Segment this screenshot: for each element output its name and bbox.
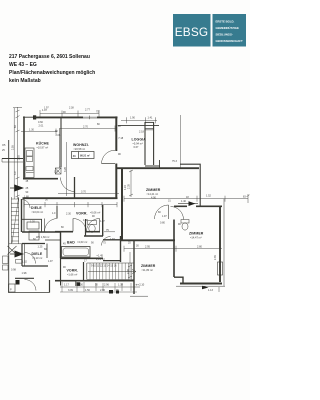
svg-text:1.41: 1.41 <box>148 117 153 120</box>
wall diele/vorr divider <box>56 206 58 218</box>
svg-text:1.40: 1.40 <box>181 200 186 203</box>
upper small rooms under diele <box>41 219 43 232</box>
svg-text:0.98: 0.98 <box>11 269 16 272</box>
stair landing edge <box>9 243 22 245</box>
far-left small boxes <box>3 256 9 264</box>
bottom left black marks <box>16 280 20 285</box>
stairwell left wall <box>8 140 10 293</box>
svg-text:6.67: 6.67 <box>134 146 139 149</box>
svg-text:≈14,41 m²: ≈14,41 m² <box>147 192 159 196</box>
x cross door mark <box>8 246 17 255</box>
svg-text:1.97: 1.97 <box>100 220 105 223</box>
svg-text:WC 1,60 m²: WC 1,60 m² <box>36 236 50 239</box>
zimmer1 door arc <box>155 205 169 219</box>
dimension line wohnzimmer 2.70 <box>60 126 117 132</box>
wall ar right <box>120 236 122 262</box>
svg-text:2.06: 2.06 <box>127 269 130 274</box>
svg-text:DIELE: DIELE <box>31 206 42 210</box>
wc door arc <box>87 219 100 232</box>
dimension line across right wing <box>124 194 250 203</box>
svg-text:1.30: 1.30 <box>29 129 34 132</box>
diele left wall lower <box>23 199 25 232</box>
svg-text:kein Maßstab: kein Maßstab <box>9 78 41 84</box>
bath door arc <box>73 219 86 232</box>
svg-text:2.95: 2.95 <box>145 245 150 248</box>
wall kitchen/wohnzimmer divider <box>60 118 62 167</box>
svg-text:≈10,04 m²: ≈10,04 m² <box>32 210 44 214</box>
wall wohnzimmer right (to loggia) <box>115 116 117 151</box>
svg-text:98,51 m²: 98,51 m² <box>80 154 90 158</box>
outer thin line right <box>223 199 225 287</box>
wall between zimmer1 and zimmer2 <box>121 239 175 241</box>
svg-text:WE 43 – EG: WE 43 – EG <box>9 62 37 68</box>
extension ticks bottom band <box>60 282 137 292</box>
svg-text:≈5,94 m²: ≈5,94 m² <box>133 141 143 145</box>
svg-text:ZIMMER: ZIMMER <box>141 264 156 268</box>
bottom left walls <box>49 280 51 293</box>
loggia column tie <box>145 128 154 130</box>
svg-text:2,23 m²: 2,23 m² <box>96 257 105 261</box>
walls around lower diele <box>21 244 23 267</box>
stair flight rails <box>10 197 12 244</box>
black arrow right wing <box>189 201 196 206</box>
loggia column top tie <box>145 121 155 123</box>
svg-text:≈5,06 m²: ≈5,06 m² <box>90 211 100 215</box>
staircase lower treads <box>86 263 88 280</box>
loggia bottom ledge <box>145 165 160 167</box>
svg-text:1.52: 1.52 <box>206 195 211 198</box>
svg-text:DIELE: DIELE <box>32 252 43 256</box>
svg-text:≈4,63 m²: ≈4,63 m² <box>77 240 87 244</box>
svg-text:≈10,97 m²: ≈10,97 m² <box>37 146 49 150</box>
bottom wall right room step <box>174 277 183 283</box>
svg-text:1.97: 1.97 <box>54 171 59 174</box>
dimension line left vertical <box>13 107 22 199</box>
svg-text:7.18: 7.18 <box>118 137 123 140</box>
right room door arc <box>171 207 184 220</box>
right room toilet <box>181 220 189 224</box>
loggia column left line <box>144 122 146 165</box>
svg-text:≈1,66 m²: ≈1,66 m² <box>67 273 77 277</box>
wall zimmer1 top <box>116 167 199 169</box>
svg-text:ZIMMER: ZIMMER <box>146 188 161 192</box>
svg-text:2.05: 2.05 <box>56 134 61 137</box>
entrance door arc <box>22 200 31 209</box>
stair treads <box>11 199 18 241</box>
svg-text:1.02: 1.02 <box>22 261 27 264</box>
kitchen sink bowl 1 <box>27 151 33 157</box>
svg-text:1.17: 1.17 <box>64 284 69 287</box>
svg-text:2.55: 2.55 <box>12 145 15 150</box>
svg-text:2.96: 2.96 <box>104 284 109 287</box>
svg-text:2.35: 2.35 <box>128 184 131 189</box>
black marks bottom stair <box>109 290 113 294</box>
right room top wall <box>174 205 187 207</box>
wall segment above bottom-left door <box>15 277 34 279</box>
stairwell right wall <box>21 199 23 232</box>
svg-text:VORR.: VORR. <box>76 212 88 216</box>
loggia door leaf + arc <box>102 163 116 165</box>
svg-text:GEMEINNÜTZIGE: GEMEINNÜTZIGE <box>216 25 239 30</box>
line under arrow <box>178 203 198 205</box>
svg-text:1.97: 1.97 <box>42 109 47 112</box>
terrace step top right <box>180 164 200 198</box>
window marks top wall <box>83 116 97 118</box>
kitchen counter outline <box>25 148 34 178</box>
diele door arc <box>45 219 58 232</box>
EBSG logo left square <box>173 14 211 47</box>
dimension line zimmer1 vertical <box>129 170 133 197</box>
dimension line 3.70 inside wohnzimmer <box>58 192 119 194</box>
svg-text:GENOSSENSCHAFT: GENOSSENSCHAFT <box>216 39 243 43</box>
svg-text:2.96: 2.96 <box>100 289 105 292</box>
entrance arrow apartment bottom <box>15 251 25 258</box>
right room left wall <box>173 220 175 278</box>
top wall step left corner <box>23 116 34 118</box>
bottom dimension 1.13 <box>218 287 220 292</box>
entrance arrow apartment top <box>15 185 25 192</box>
bottom-left inner walls <box>60 281 62 286</box>
svg-text:0.80: 0.80 <box>160 222 165 225</box>
svg-text:2.70: 2.70 <box>83 126 88 129</box>
svg-text:1.55: 1.55 <box>18 155 21 160</box>
wc left wall <box>85 219 87 236</box>
svg-text:WOHNZI.: WOHNZI. <box>73 143 89 147</box>
svg-text:Plan/Flächenabweichungen mögli: Plan/Flächenabweichungen möglich <box>9 70 95 76</box>
svg-text:9 10 11 12 13 14 15 16: 9 10 11 12 13 14 15 16 <box>91 265 117 268</box>
dimension line mid right 2.95/2.80 <box>124 246 222 252</box>
kitchen sink bowl 2 <box>27 157 33 162</box>
vertical dim line wohnzi <box>66 142 68 196</box>
loggia column right line <box>153 122 155 165</box>
svg-text:1.88: 1.88 <box>24 196 29 199</box>
svg-text:2.30: 2.30 <box>66 213 71 216</box>
svg-text:BAD: BAD <box>67 241 75 245</box>
small box left wall <box>16 260 23 264</box>
bottom band wall <box>55 280 134 282</box>
svg-text:75.3: 75.3 <box>172 160 177 163</box>
svg-text:3.70: 3.70 <box>81 191 86 194</box>
apartment badge 43 / 98,51 m² <box>72 152 95 159</box>
wall kitchen bottom <box>23 178 58 180</box>
wall left kitchen exterior <box>23 116 25 178</box>
svg-text:1.25: 1.25 <box>38 246 43 249</box>
wall ar bottom <box>84 235 103 237</box>
walls vorr2 <box>60 258 62 281</box>
black arrow bottom right <box>202 286 209 289</box>
dimension line loggia top 1.90 / 1.41 <box>121 117 157 123</box>
loggia top wall <box>118 124 159 126</box>
svg-text:3.09: 3.09 <box>68 289 73 292</box>
svg-text:1.90: 1.90 <box>130 117 135 120</box>
svg-text:2.35: 2.35 <box>214 255 217 260</box>
dishwasher box with cross <box>55 168 61 174</box>
dimension line top (kitchen) <box>40 110 99 117</box>
wall zimmer1 left <box>121 168 123 240</box>
svg-text:1.97: 1.97 <box>44 106 49 109</box>
svg-text:⊕+2,10: ⊕+2,10 <box>136 283 145 287</box>
svg-text:1.13: 1.13 <box>208 289 213 292</box>
extension line to right <box>180 115 182 168</box>
svg-text:≈11,80 m²: ≈11,80 m² <box>142 268 154 272</box>
lower diele door arc <box>25 253 36 264</box>
bottom left door arc <box>25 280 37 291</box>
wall wohnzimmer bottom / corridor top <box>23 197 118 199</box>
bottom band baseline <box>60 286 140 288</box>
svg-text:2.80: 2.80 <box>197 245 202 248</box>
assorted small dimension labels <box>12 106 247 269</box>
bottom band dimension texts <box>64 284 123 293</box>
svg-text:KÜCHE: KÜCHE <box>36 142 50 146</box>
wall ar bottom lower <box>103 260 121 262</box>
bathtub <box>62 247 91 258</box>
bottom wall right room <box>180 283 222 285</box>
wall wc right / ar left <box>102 205 104 236</box>
svg-text:ERSTE BGLD.: ERSTE BGLD. <box>216 19 235 23</box>
svg-text:EBSG: EBSG <box>175 25 209 39</box>
svg-text:217 Pachergasse 6, 2601 Sollen: 217 Pachergasse 6, 2601 Sollenau <box>9 54 90 60</box>
svg-text:1.97: 1.97 <box>162 215 167 218</box>
svg-text:2.38: 2.38 <box>69 107 74 110</box>
svg-text:2.18: 2.18 <box>139 131 144 134</box>
wall bad left <box>60 232 62 258</box>
small boxes lower stair zone <box>27 222 39 229</box>
svg-text:4.20: 4.20 <box>124 185 127 190</box>
wall bad bottom <box>60 257 103 259</box>
bottom outer thin line <box>176 285 225 287</box>
wc toilet <box>88 221 97 225</box>
svg-text:2.77: 2.77 <box>85 109 90 112</box>
svg-text:ZIMMER: ZIMMER <box>189 232 204 236</box>
dimension line kitchen width 1.30 <box>21 129 57 135</box>
dimension rotated zimmer2 <box>128 252 132 279</box>
staircase arrow <box>88 271 134 273</box>
EBSG logo right square <box>213 14 247 47</box>
corridor dimension line with ticks <box>24 202 117 207</box>
svg-text:3.26: 3.26 <box>64 167 67 172</box>
svg-text:1.97: 1.97 <box>48 260 53 263</box>
right room window notch <box>218 262 223 275</box>
terrace corner connector <box>199 199 201 207</box>
faint line under zimmer2 <box>130 295 148 297</box>
kitchen stove <box>26 167 33 171</box>
svg-text:≈4,13 m²: ≈4,13 m² <box>32 256 42 260</box>
door stub wall <box>74 177 76 198</box>
wall right room right <box>219 206 221 282</box>
svg-text:SIEDLUNGS-: SIEDLUNGS- <box>216 32 233 36</box>
kitchen door arc <box>61 178 75 192</box>
svg-text:LOGGIA: LOGGIA <box>132 138 147 142</box>
svg-text:4.90: 4.90 <box>151 197 156 200</box>
svg-text:VORR.: VORR. <box>67 269 79 273</box>
svg-text:≈14,47 m²: ≈14,47 m² <box>190 236 202 240</box>
stair diagonal <box>12 198 19 243</box>
balcony lines left of kitchen <box>2 158 23 160</box>
wall top exterior <box>34 116 118 118</box>
svg-text:≈20,58 m²: ≈20,58 m² <box>74 147 86 151</box>
svg-text:2.01: 2.01 <box>39 125 44 128</box>
corridor to ar door arc <box>102 237 111 246</box>
svg-text:1.97: 1.97 <box>110 238 115 241</box>
svg-text:1.98: 1.98 <box>22 272 27 275</box>
paper background <box>0 0 250 400</box>
svg-text:1.38: 1.38 <box>118 284 123 287</box>
svg-text:≈1,45: ≈1,45 <box>97 253 104 257</box>
corridor bottom wall over bathroom <box>55 231 73 233</box>
svg-text:1.50: 1.50 <box>85 289 90 292</box>
